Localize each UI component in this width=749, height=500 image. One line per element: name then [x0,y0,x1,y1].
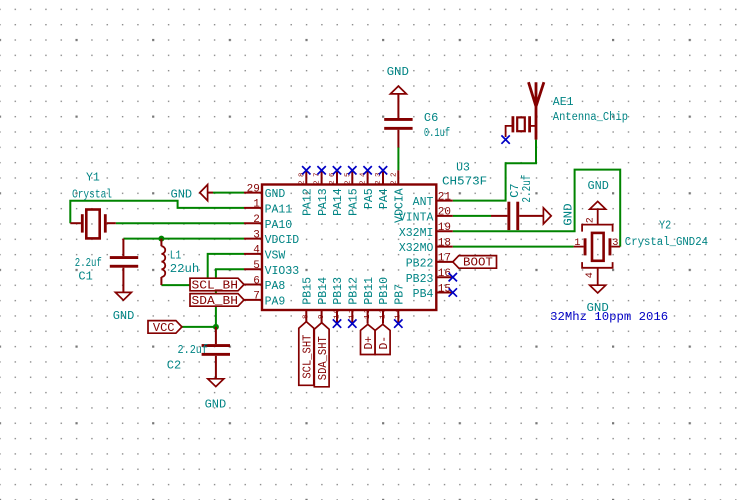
svg-text:PA8: PA8 [265,280,286,293]
ground below C1 [115,292,131,300]
capacitor C1 [110,239,138,293]
svg-text:PB15: PB15 [302,277,315,305]
svg-text:SDA_SHT: SDA_SHT [316,336,330,380]
ground above Y2 [590,201,606,209]
U3 pin 22 (VDCIA) top [390,170,406,223]
wire C1/L1 node to VDCID [123,238,244,240]
ground left of pin29 [200,185,213,201]
svg-text:3: 3 [612,238,618,249]
no-connect pin 23 [379,166,387,174]
svg-text:2: 2 [586,217,597,223]
svg-text:8: 8 [303,314,311,319]
svg-text:GND: GND [205,397,227,411]
svg-text:PA5: PA5 [363,188,376,209]
svg-text:10: 10 [333,308,341,319]
svg-text:22uh: 22uh [170,262,200,276]
U3 pin 13 (PB10) bottom [378,277,391,324]
svg-text:3: 3 [253,229,260,241]
svg-text:Crystal: Crystal [72,187,112,201]
U3 pin 10 (PB13) bottom [332,277,345,324]
U3 pin 16 (PB23) right [406,268,453,286]
antenna AE1 [506,82,544,139]
svg-text:AE1: AE1 [553,96,574,109]
U3 pin 23 (PA4) top [375,170,391,209]
net label SCL_SHT [299,322,314,386]
svg-text:21: 21 [438,191,452,203]
power label VCC [148,321,182,334]
U3 pin 21 (ANT) right [413,191,453,209]
wire VSW to L1 bottom [161,254,244,285]
svg-text:PA14: PA14 [332,188,345,216]
svg-text:PB11: PB11 [363,277,376,305]
svg-text:PA10: PA10 [265,219,293,232]
wire X32MO to Y2 pin1 [453,246,574,248]
svg-text:GND: GND [387,65,409,79]
svg-text:PB4: PB4 [413,288,434,301]
svg-text:Y2: Y2 [659,220,671,233]
svg-text:14: 14 [395,308,403,319]
svg-text:18: 18 [438,237,451,249]
svg-text:Crystal_GND24: Crystal_GND24 [625,236,708,249]
capacitor C6 [384,94,412,148]
U3 pin 27 (PA13) top [314,170,330,216]
wire Y1 right to PA10 [116,222,244,224]
ground right of C7 [543,208,551,224]
svg-text:ANT: ANT [413,196,434,209]
no-connect pin 10 [333,319,341,327]
junction node VCC/C2 [213,324,219,330]
no-connect pin 15 [449,288,457,296]
svg-text:19: 19 [438,222,451,234]
no-connect pin 25 [348,166,356,174]
svg-text:PA15: PA15 [348,188,361,216]
ground below Y2 [590,285,606,293]
wire VINTA to C7 [453,215,491,217]
crystal Y2 [574,209,621,285]
wire GND to pin29 [213,192,244,194]
svg-text:VDCID: VDCID [265,234,300,247]
U3 pin 8 (PB15) bottom [302,277,315,324]
svg-text:1: 1 [574,238,580,249]
U3 pin 19 (X32MI) right [399,222,453,240]
svg-text:7: 7 [253,291,260,303]
svg-text:BOOT: BOOT [463,256,493,270]
U3 pin 26 (PA14) top [329,170,345,216]
wire VCC label to node [182,326,216,328]
junction node L1/VDCID [158,236,164,242]
svg-text:4: 4 [585,272,596,278]
no-connect pin 14 [394,319,402,327]
IC U3 CH573F body [262,185,436,311]
svg-text:4: 4 [253,245,260,257]
ground above C6 [390,86,406,94]
svg-text:VSW: VSW [265,250,286,263]
wire antenna to ANT pin21 [453,140,536,201]
svg-text:6: 6 [253,275,260,287]
U3 pin 12 (PB11) bottom [363,277,376,324]
net label SCL_BH [190,278,244,291]
svg-text:11: 11 [349,308,357,319]
svg-text:2: 2 [253,214,260,226]
svg-text:C2: C2 [167,358,181,372]
svg-text:PA13: PA13 [317,188,330,216]
wire Y1 left to PA11 [70,201,244,224]
net label BOOT [453,256,497,269]
svg-text:C1: C1 [78,270,92,284]
svg-text:GND: GND [588,179,609,193]
U3 pin 20 (VINTA) right [399,207,453,225]
U3 pin 5 (VIO33) left [244,260,299,278]
svg-text:12: 12 [364,309,372,319]
no-connect pin 24 [363,166,371,174]
net label D- [375,324,390,354]
svg-text:32Mhz 10ppm 2016: 32Mhz 10ppm 2016 [550,310,668,324]
svg-text:Y1: Y1 [86,171,100,184]
no-connect pin 11 [348,319,356,327]
U3 pin 2 (PA10) left [244,214,292,232]
net label D+ [361,324,376,354]
svg-text:VDCIA: VDCIA [394,188,407,223]
svg-text:U3: U3 [456,161,470,174]
svg-text:5: 5 [253,260,260,272]
svg-text:SCL_BH: SCL_BH [192,278,239,292]
svg-text:VCC: VCC [153,321,175,335]
U3 pin 1 (PA11) left [244,199,292,217]
svg-text:SDA_BH: SDA_BH [192,294,239,308]
U3 pin 25 (PA15) top [344,170,360,216]
no-connect pin 16 [449,273,457,281]
svg-text:13: 13 [379,308,387,319]
U3 pin 7 (PA9) left [244,291,285,309]
svg-text:D+: D+ [362,336,376,350]
inductor L1 [161,239,165,286]
U3 pin 3 (VDCID) left [244,229,299,247]
U3 pin 17 (PB22) right [406,253,453,271]
svg-text:GND: GND [561,203,575,225]
crystal Y1 [70,210,116,239]
svg-text:GND: GND [113,309,135,323]
svg-text:C6: C6 [424,111,438,125]
svg-text:2.2uf: 2.2uf [520,175,534,203]
svg-text:X32MI: X32MI [399,227,434,240]
svg-text:PB13: PB13 [332,277,345,305]
svg-text:PB10: PB10 [378,277,391,305]
svg-text:PA12: PA12 [302,188,315,216]
ground below C2 [208,379,224,387]
svg-text:PB7: PB7 [394,284,407,305]
capacitor C7 [491,202,543,230]
no-connect pin 28 [302,166,310,174]
svg-text:9: 9 [318,314,326,319]
no-connect pin 27 [317,166,325,174]
U3 pin 18 (X32MO) right [399,237,453,255]
svg-text:2.2uf: 2.2uf [75,256,102,270]
capacitor C2 [202,327,230,379]
svg-text:CH573F: CH573F [442,175,487,188]
svg-text:20: 20 [438,207,451,219]
U3 pin 11 (PB12) bottom [348,277,361,324]
svg-text:L1: L1 [170,249,182,263]
U3 pin 4 (VSW) left [244,245,285,263]
svg-text:GND: GND [171,187,193,201]
svg-text:X32MO: X32MO [399,242,434,255]
svg-text:SCL_SHT: SCL_SHT [301,335,315,379]
svg-text:PA9: PA9 [265,296,286,309]
svg-text:PB14: PB14 [317,277,330,305]
svg-text:1: 1 [253,199,260,211]
svg-text:PB23: PB23 [406,273,434,286]
wire C6 to VDCIA [397,147,399,170]
wire X32MI to Y2 pin3 [453,170,620,247]
net label SDA_SHT [314,323,329,387]
svg-text:2.2uf: 2.2uf [178,343,209,357]
no-connect pin 26 [333,166,341,174]
no-connect AE1 pin1 [501,135,509,143]
U3 pin 28 (PA12) top [298,170,314,216]
svg-text:VIO33: VIO33 [265,265,300,278]
wire VIO33 to VCC node [216,269,244,327]
svg-text:PB12: PB12 [348,277,361,305]
U3 pin 29 (GND) left [244,183,285,201]
svg-text:29: 29 [247,183,260,195]
U3 pin 6 (PA8) left [244,275,285,293]
U3 pin 14 (PB7) bottom [394,284,407,324]
U3 pin 15 (PB4) right [413,283,453,301]
svg-text:PA4: PA4 [378,188,391,209]
net label SDA_BH [190,294,244,307]
svg-text:Antenna_Chip: Antenna_Chip [553,111,628,124]
U3 pin 9 (PB14) bottom [317,277,330,324]
svg-text:D-: D- [377,336,391,350]
svg-text:0.1uf: 0.1uf [424,126,450,140]
U3 pin 24 (PA5) top [360,170,376,209]
svg-text:PB22: PB22 [406,258,434,271]
svg-text:PA11: PA11 [265,204,293,217]
svg-text:17: 17 [438,253,451,265]
svg-text:GND: GND [265,188,286,201]
